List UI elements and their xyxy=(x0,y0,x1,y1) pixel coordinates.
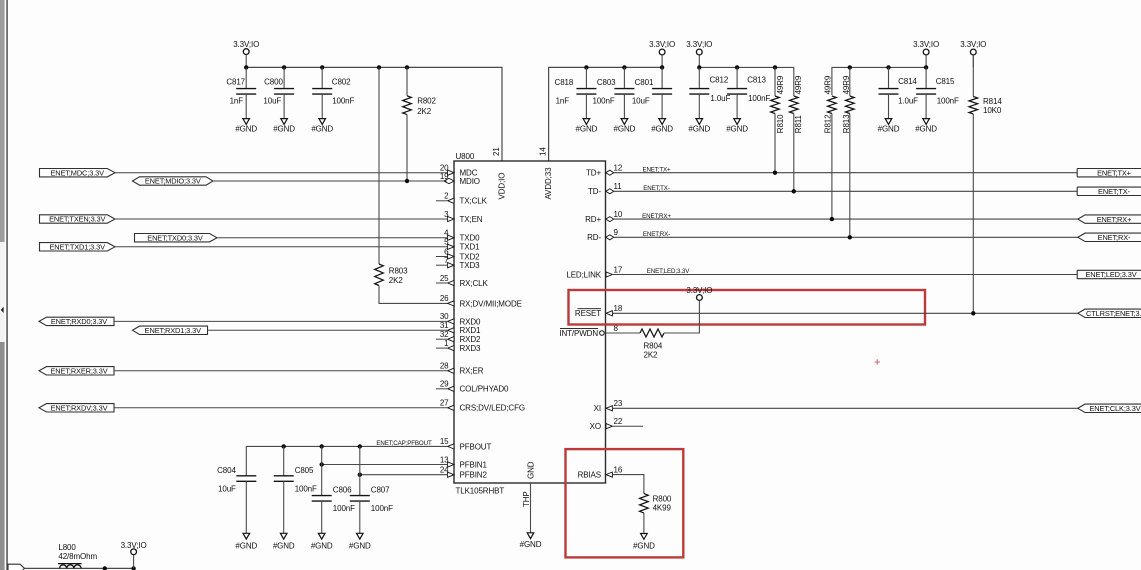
wire TX termination bus xyxy=(699,67,794,96)
port ENET;MDC;3.3V xyxy=(40,168,116,177)
svg-text:#GND: #GND xyxy=(915,124,937,133)
svg-text:#GND: #GND xyxy=(576,124,598,133)
svg-text:100nF: 100nF xyxy=(332,96,354,105)
wire RD+ / ENET;RX+ xyxy=(614,213,1078,220)
port ENET;TXD1;3.3V xyxy=(40,243,116,252)
svg-text:C800: C800 xyxy=(264,78,283,87)
svg-text:L800: L800 xyxy=(58,543,76,552)
pin 5 TXD1 xyxy=(444,238,480,252)
window edge strip (left of schematic canvas) xyxy=(0,0,8,570)
capacitor C815 xyxy=(915,67,959,133)
svg-text:#GND: #GND xyxy=(311,124,333,133)
svg-text:PFBIN2: PFBIN2 xyxy=(460,471,488,480)
inductor L800 42/8mOhm xyxy=(58,543,97,569)
resistor R811 (49R9 to TD-) xyxy=(790,75,804,191)
node RD+/R812 junction xyxy=(830,217,834,221)
svg-text:AVDD;33: AVDD;33 xyxy=(544,167,553,200)
svg-text:ENET;RX-: ENET;RX- xyxy=(643,231,670,238)
wire MDIO xyxy=(213,180,447,182)
svg-text:TLK105RHBT: TLK105RHBT xyxy=(456,486,505,495)
svg-text:C804: C804 xyxy=(217,466,236,475)
svg-text:C812: C812 xyxy=(710,76,729,85)
port ENET;TXD0;3.3V xyxy=(135,233,218,242)
port ENET;LED;3.3V xyxy=(1077,270,1141,279)
svg-text:R810: R810 xyxy=(776,114,785,133)
capacitor C802 xyxy=(311,67,354,133)
svg-text:TD-: TD- xyxy=(588,187,601,196)
svg-text:R811: R811 xyxy=(794,114,803,133)
pin 4 TXD0 xyxy=(444,229,480,243)
svg-text:C817: C817 xyxy=(226,78,245,87)
svg-text:C807: C807 xyxy=(371,486,390,495)
svg-text:49R9: 49R9 xyxy=(794,75,803,94)
wire TD+ / ENET;TX+ xyxy=(614,166,1077,173)
wire AVDD bus to pin 14 xyxy=(549,67,663,161)
svg-text:29: 29 xyxy=(440,380,449,389)
wire 3.3V;IO feed xyxy=(25,567,134,569)
port ENET;RXD0;3.3V xyxy=(39,317,114,326)
svg-text:#GND: #GND xyxy=(235,541,257,550)
svg-text:3.3V;IO: 3.3V;IO xyxy=(960,40,986,49)
svg-text:RX;ER: RX;ER xyxy=(460,367,484,376)
svg-text:1.0uF: 1.0uF xyxy=(898,96,918,105)
svg-text:17: 17 xyxy=(614,265,623,274)
wire RX termination bus xyxy=(832,67,926,95)
resistor R803 (to RX;DV/MII;MODE) xyxy=(375,67,448,303)
pin 22 XO xyxy=(590,417,643,431)
capacitor C801 xyxy=(632,67,673,133)
pin 9 RD- xyxy=(587,228,618,242)
svg-text:RXD1: RXD1 xyxy=(460,326,482,335)
pin GND / THP (bottom) xyxy=(520,461,542,549)
svg-text:C803: C803 xyxy=(597,78,616,87)
pin 32 RXD2 xyxy=(436,330,481,344)
wire RXD1 xyxy=(208,329,448,331)
small red cross marker xyxy=(875,359,881,365)
svg-text:R814: R814 xyxy=(983,97,1002,106)
port ENET;TX- xyxy=(1077,187,1141,196)
wire RXD0 xyxy=(114,320,448,322)
capacitor C818 xyxy=(555,67,598,133)
svg-text:9: 9 xyxy=(614,228,619,237)
svg-text:27: 27 xyxy=(440,399,449,408)
pin 6 TXD2 xyxy=(436,247,480,261)
power symbol 3.3V;IO (VDD;IO rail) xyxy=(233,40,259,68)
svg-text:100nF: 100nF xyxy=(593,97,615,106)
wire RXER xyxy=(114,370,448,372)
pin 27 CRS;DV/LED;CFG xyxy=(440,399,525,413)
svg-text:22: 22 xyxy=(614,417,623,426)
svg-text:ENET;TXD1;3.3V: ENET;TXD1;3.3V xyxy=(49,243,105,252)
svg-text:ENET;TXEN;3.3V: ENET;TXEN;3.3V xyxy=(49,215,105,224)
pin 24 PFBIN2 xyxy=(440,466,488,480)
capacitor C804 xyxy=(217,466,257,550)
svg-text:RBIAS: RBIAS xyxy=(578,471,601,480)
pin 16 RBIAS xyxy=(578,465,623,479)
resistor R812 (49R9 to RD+) xyxy=(824,75,837,219)
svg-text:31: 31 xyxy=(440,321,449,330)
pin 12 TD+ xyxy=(586,164,623,178)
pin 11 TD- xyxy=(588,182,622,196)
port ENET;RXD1;3.3V xyxy=(133,326,208,335)
svg-text:2K2: 2K2 xyxy=(417,107,432,116)
svg-text:RXD0: RXD0 xyxy=(460,317,482,326)
svg-text:VDD;IO: VDD;IO xyxy=(498,173,507,200)
svg-text:ENET;TX+: ENET;TX+ xyxy=(642,166,671,173)
capacitor C812 xyxy=(688,67,730,133)
svg-text:#GND: #GND xyxy=(311,541,333,550)
svg-text:16: 16 xyxy=(614,465,623,474)
capacitor C807 xyxy=(349,446,393,550)
svg-text:XI: XI xyxy=(594,404,601,413)
svg-text:C814: C814 xyxy=(898,77,917,86)
pin 8 INT/PWDN xyxy=(559,324,618,338)
pin 31 RXD1 xyxy=(440,321,481,335)
svg-text:42/8mOhm: 42/8mOhm xyxy=(58,552,97,561)
node CTLRST/R814 junction xyxy=(971,311,975,315)
wire TXEN xyxy=(115,218,448,220)
svg-text:ENET;RXDV;3.3V: ENET;RXDV;3.3V xyxy=(51,404,108,413)
svg-text:RXD2: RXD2 xyxy=(460,335,482,344)
svg-text:23: 23 xyxy=(614,399,623,408)
svg-text:TXD3: TXD3 xyxy=(460,261,481,270)
svg-text:LED;LINK: LED;LINK xyxy=(566,270,601,279)
wire TXD1 xyxy=(115,246,448,248)
pin 10 RD+ xyxy=(585,210,623,224)
red highlight box (RESET net) xyxy=(569,290,926,325)
wire PFBOUT bus / ENET;CAP;PFBOUT xyxy=(246,440,447,476)
pin 25 RX;CLK xyxy=(436,274,488,288)
resistor R810 (49R9 to TD+) xyxy=(771,67,786,172)
svg-text:CRS;DV/LED;CFG: CRS;DV/LED;CFG xyxy=(460,404,525,413)
capacitor C803 xyxy=(593,67,636,133)
svg-text:R804: R804 xyxy=(644,341,663,350)
svg-text:49R9: 49R9 xyxy=(842,75,851,94)
svg-text:ENET;CAP;PFBOUT: ENET;CAP;PFBOUT xyxy=(376,440,432,447)
capacitor C800 xyxy=(263,67,295,133)
svg-text:#GND: #GND xyxy=(651,124,673,133)
svg-text:100nF: 100nF xyxy=(748,94,770,103)
port ENET;TX+ xyxy=(1077,168,1141,177)
svg-text:ENET;TX+: ENET;TX+ xyxy=(1097,168,1131,177)
svg-text:1nF: 1nF xyxy=(556,97,570,106)
svg-text:#GND: #GND xyxy=(633,541,655,550)
power symbol 3.3V;IO (INT/PWDN pull-up) xyxy=(686,286,712,301)
svg-text:21: 21 xyxy=(492,147,501,156)
port ENET;CLK;3.3V xyxy=(1078,404,1141,413)
pin 30 RXD0 xyxy=(440,312,481,326)
svg-text:#GND: #GND xyxy=(614,124,636,133)
svg-text:100nF: 100nF xyxy=(333,504,355,513)
port ENET;RX+ xyxy=(1078,215,1141,224)
svg-text:ENET;LED;3.3V: ENET;LED;3.3V xyxy=(647,268,690,275)
svg-text:3.3V;IO: 3.3V;IO xyxy=(233,40,259,49)
wire PFBIN2 xyxy=(358,473,448,477)
power symbol 3.3V;IO (TX term rail) xyxy=(686,40,712,68)
svg-text:ENET;MDIO;3.3V: ENET;MDIO;3.3V xyxy=(145,177,201,186)
pin 17 LED;LINK xyxy=(566,265,622,279)
svg-text:C802: C802 xyxy=(332,78,351,87)
svg-text:ENET;TXD0;3.3V: ENET;TXD0;3.3V xyxy=(147,233,203,242)
svg-text:32: 32 xyxy=(440,330,449,339)
port CTLRST;ENET;3.3V xyxy=(1078,309,1141,318)
svg-text:RXD3: RXD3 xyxy=(460,344,482,353)
svg-text:1: 1 xyxy=(444,339,449,348)
svg-text:RD+: RD+ xyxy=(585,215,601,224)
svg-text:R803: R803 xyxy=(389,266,408,275)
svg-text:C805: C805 xyxy=(295,466,314,475)
svg-text:TX;EN: TX;EN xyxy=(460,215,483,224)
svg-text:ENET;CLK;3.3V: ENET;CLK;3.3V xyxy=(1089,404,1140,413)
svg-text:#GND: #GND xyxy=(273,541,295,550)
svg-text:11: 11 xyxy=(614,182,623,191)
node RD-/R813 junction xyxy=(848,235,852,239)
port ENET;RXER;3.3V xyxy=(39,367,114,376)
wire VDD;IO bus to pin 21 xyxy=(246,67,502,161)
node TD+/R810 junction xyxy=(773,171,777,175)
pin 20 MDC xyxy=(440,164,478,178)
svg-text:1.0uF: 1.0uF xyxy=(710,94,730,103)
port ENET;MDIO;3.3V xyxy=(133,177,214,186)
svg-text:15: 15 xyxy=(440,437,449,446)
node TD-/R811 junction xyxy=(792,189,796,193)
svg-text:18: 18 xyxy=(614,304,623,313)
pin 23 XI xyxy=(594,399,623,413)
capacitor C813 xyxy=(726,67,770,133)
svg-text:#GND: #GND xyxy=(520,540,542,549)
svg-text:THP: THP xyxy=(522,491,531,507)
svg-text:C801: C801 xyxy=(635,78,654,87)
pin 13 PFBIN1 xyxy=(440,455,488,469)
svg-text:ENET;TX-: ENET;TX- xyxy=(643,185,670,192)
pin 15 PFBOUT xyxy=(440,437,492,451)
pin 21 VDD;IO (top) xyxy=(492,147,507,200)
svg-text:ENET;LED;3.3V: ENET;LED;3.3V xyxy=(1085,270,1136,279)
svg-text:XO: XO xyxy=(590,422,601,431)
node PFBOUT bus junctions xyxy=(282,444,362,448)
wire XI / ENET;CLK;3.3V xyxy=(612,407,1077,409)
svg-text:ENET;RX+: ENET;RX+ xyxy=(1097,215,1132,224)
svg-text:3.3V;IO: 3.3V;IO xyxy=(649,40,675,49)
pin 29 COL/PHYAD0 xyxy=(436,380,509,394)
svg-text:26: 26 xyxy=(440,294,449,303)
svg-text:C815: C815 xyxy=(936,77,955,86)
svg-text:10: 10 xyxy=(614,210,623,219)
svg-text:PFBOUT: PFBOUT xyxy=(460,442,492,451)
svg-text:2K2: 2K2 xyxy=(389,276,404,285)
wire PFBIN1 xyxy=(320,462,448,466)
wire TD- / ENET;TX- xyxy=(614,185,1077,192)
svg-text:1nF: 1nF xyxy=(230,96,244,105)
pin 3 TX;EN xyxy=(444,210,483,224)
wire RXDV xyxy=(114,407,448,409)
svg-text:100nF: 100nF xyxy=(937,96,959,105)
wire MDC xyxy=(115,172,448,174)
svg-text:C818: C818 xyxy=(555,78,574,87)
svg-text:ENET;RX+: ENET;RX+ xyxy=(642,213,671,220)
svg-text:PFBIN1: PFBIN1 xyxy=(460,460,488,469)
wire TXD0 xyxy=(217,237,448,239)
svg-text:2: 2 xyxy=(444,192,449,201)
svg-text:3.3V;IO: 3.3V;IO xyxy=(686,286,712,295)
svg-text:30: 30 xyxy=(440,312,449,321)
svg-text:3.3V;IO: 3.3V;IO xyxy=(686,40,712,49)
pin 18 RESET xyxy=(575,304,623,318)
svg-text:ENET;MDC;3.3V: ENET;MDC;3.3V xyxy=(50,168,104,177)
resistor R802 (pull-up to MDIO) xyxy=(403,67,437,181)
port (bottom-left, cut off) xyxy=(8,564,25,570)
capacitor C805 xyxy=(273,446,317,550)
pin 1 RXD3 xyxy=(436,339,481,353)
svg-text:3.3V;IO: 3.3V;IO xyxy=(121,541,147,550)
svg-text:ENET;TX-: ENET;TX- xyxy=(1098,187,1131,196)
svg-text:RESET: RESET xyxy=(575,309,601,318)
svg-text:RX;CLK: RX;CLK xyxy=(460,279,489,288)
node MDIO/R802 junction xyxy=(405,179,409,183)
svg-text:RX;DV/MII;MODE: RX;DV/MII;MODE xyxy=(460,299,522,308)
svg-text:TXD0: TXD0 xyxy=(460,234,481,243)
svg-text:#GND: #GND xyxy=(273,124,295,133)
svg-text:U800: U800 xyxy=(456,152,475,161)
svg-text:C806: C806 xyxy=(333,486,352,495)
svg-text:TX;CLK: TX;CLK xyxy=(460,197,488,206)
svg-text:#GND: #GND xyxy=(349,541,371,550)
pin 2 TX;CLK xyxy=(436,192,488,206)
resistor R804 (2K2 INT/PWDN pull-up) xyxy=(605,300,700,359)
wire RD- / ENET;RX- xyxy=(614,231,1078,238)
pin 28 RX;ER xyxy=(440,362,484,376)
power symbol 3.3V;IO (RX term rail) xyxy=(913,40,939,68)
svg-text:25: 25 xyxy=(440,274,449,283)
resistor R813 (49R9 to RD-) xyxy=(842,67,854,237)
capacitor C814 xyxy=(878,67,919,133)
power symbol 3.3V;IO (AVDD rail) xyxy=(649,40,675,68)
node VDD;IO bus junctions xyxy=(244,65,409,69)
svg-text:2K2: 2K2 xyxy=(644,350,659,359)
svg-text:#GND: #GND xyxy=(878,124,900,133)
svg-text:TXD2: TXD2 xyxy=(460,252,481,261)
node AVDD bus junctions xyxy=(584,65,664,69)
svg-text:R813: R813 xyxy=(842,114,851,133)
svg-text:RD-: RD- xyxy=(587,233,601,242)
svg-text:INT/PWDN: INT/PWDN xyxy=(559,329,598,338)
svg-text:10uF: 10uF xyxy=(632,97,650,106)
svg-text:ENET;RX-: ENET;RX- xyxy=(1098,233,1131,242)
svg-text:10K0: 10K0 xyxy=(983,106,1002,115)
svg-text:CTLRST;ENET;3.3V: CTLRST;ENET;3.3V xyxy=(1086,309,1141,318)
svg-text:28: 28 xyxy=(440,362,449,371)
pin 19 MDIO xyxy=(440,172,480,186)
port ENET;RXDV;3.3V xyxy=(39,404,114,413)
svg-text:10uF: 10uF xyxy=(218,484,236,493)
pin 26 RX;DV/MII;MODE xyxy=(440,294,522,308)
svg-text:#GND: #GND xyxy=(726,124,748,133)
IC U800 TLK105RHBT body xyxy=(454,152,606,496)
svg-text:3.3V;IO: 3.3V;IO xyxy=(913,40,939,49)
port ENET;RX- xyxy=(1078,233,1141,242)
svg-text:12: 12 xyxy=(614,164,623,173)
svg-text:R812: R812 xyxy=(824,114,833,133)
capacitor C806 xyxy=(311,446,355,550)
svg-text:14: 14 xyxy=(539,147,548,156)
svg-text:TXD1: TXD1 xyxy=(460,243,481,252)
svg-text:COL/PHYAD0: COL/PHYAD0 xyxy=(460,385,510,394)
svg-text:#GND: #GND xyxy=(688,124,710,133)
svg-text:100nF: 100nF xyxy=(295,484,317,493)
svg-text:R800: R800 xyxy=(653,494,672,503)
svg-text:10uF: 10uF xyxy=(263,96,281,105)
wire RESET / CTLRST xyxy=(612,312,1077,314)
pin 14 AVDD;33 (top) xyxy=(539,147,553,200)
svg-text:ENET;RXER;3.3V: ENET;RXER;3.3V xyxy=(50,367,107,376)
red highlight box (RBIAS) xyxy=(566,449,684,557)
node feed junctions xyxy=(103,566,136,570)
svg-text:4K99: 4K99 xyxy=(653,503,672,512)
power symbol 3.3V;IO (R814) xyxy=(960,40,986,68)
svg-text:49R9: 49R9 xyxy=(824,75,833,94)
power symbol 3.3V;IO (bottom) xyxy=(121,541,147,568)
wire LED;LINK / ENET;LED;3.3V xyxy=(612,268,1077,275)
svg-text:49R9: 49R9 xyxy=(776,75,785,94)
svg-text:#GND: #GND xyxy=(235,124,257,133)
svg-text:GND: GND xyxy=(526,461,535,479)
svg-text:TD+: TD+ xyxy=(586,169,601,178)
svg-text:ENET;RXD0;3.3V: ENET;RXD0;3.3V xyxy=(51,317,107,326)
svg-text:100nF: 100nF xyxy=(371,504,393,513)
capacitor C817 xyxy=(226,67,257,133)
resistor R814 (10K0 pull-up on CTLRST) xyxy=(969,55,1002,313)
pin 7 TXD3 xyxy=(436,256,480,270)
node RX term bus junctions xyxy=(848,65,929,69)
svg-text:MDIO: MDIO xyxy=(460,177,480,186)
svg-text:ENET;RXD1;3.3V: ENET;RXD1;3.3V xyxy=(145,326,201,335)
svg-text:C813: C813 xyxy=(747,76,766,85)
port ENET;TXEN;3.3V xyxy=(40,215,116,224)
node TX term bus junctions xyxy=(697,65,777,69)
resistor R800 (4K99 on RBIAS) xyxy=(612,475,672,551)
svg-text:R802: R802 xyxy=(417,96,436,105)
